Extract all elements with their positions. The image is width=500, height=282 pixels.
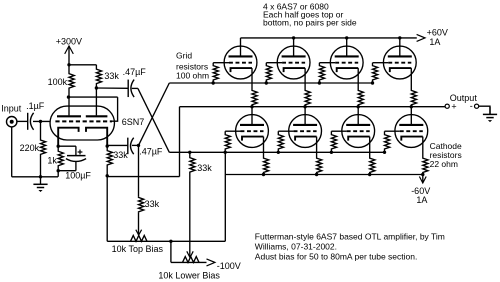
resistor 33k cathode2: [107, 146, 112, 169]
wire cathode lead V2a: [357, 68, 359, 88]
wire C1 to grid1: [33, 120, 51, 122]
wire plate2 to C2: [96, 87, 128, 89]
svg-text:100k: 100k: [48, 77, 68, 87]
svg-text:33k: 33k: [113, 150, 128, 160]
capacitor C2 .47uF top: [127, 80, 129, 98]
svg-text:10k Lower Bias: 10k Lower Bias: [158, 270, 220, 280]
svg-text:.1µF: .1µF: [26, 101, 45, 111]
wire cathode2 chain down: [106, 176, 108, 242]
wire cathode lead V1a: [251, 68, 253, 88]
node +60V rail junction 3: [398, 36, 401, 39]
tube U1 plate1 lead: [68, 97, 70, 115]
svg-text:Grid: Grid: [176, 51, 192, 61]
svg-text:-: -: [470, 101, 473, 111]
resistor 22ohm bottom cathode 4: [423, 156, 428, 175]
node bottom bus junction 4: [383, 151, 386, 154]
svg-text:100 ohm: 100 ohm: [176, 71, 209, 81]
svg-text:Futterman-style 6AS7 based OTL: Futterman-style 6AS7 based OTL amplifier…: [255, 231, 445, 241]
svg-text:22 ohm: 22 ohm: [430, 159, 458, 169]
node -60V rail junction 3: [368, 173, 371, 176]
resistor 33k top bias feed: [139, 197, 144, 213]
wire cathode network bottom: [58, 170, 76, 172]
resistor 22ohm top cathode 3: [358, 89, 363, 107]
tube V3a 6AS7 bottom half: [236, 115, 269, 148]
node top bus junction 1: [212, 81, 215, 84]
power +300V arrow: [65, 46, 74, 54]
node output rail junction 4: [410, 105, 413, 108]
node output rail junction 3: [357, 105, 360, 108]
resistor 100ohm grid bottom 1: [225, 131, 230, 152]
capacitor C3 100uF plus: [78, 151, 83, 153]
tube V1b plate lead: [293, 38, 295, 57]
resistor 33k plate2: [96, 65, 101, 88]
node cathode network bottom junction: [57, 169, 60, 172]
wire +300V arrow shaft: [68, 46, 70, 65]
wire grid lead V2a: [319, 62, 335, 64]
tube U1 plate2 lead: [95, 88, 97, 115]
svg-text:1A: 1A: [429, 37, 440, 47]
node -60V rail junction 1: [262, 173, 265, 176]
tube U1 cathode1: [58, 128, 78, 146]
resistor 22ohm bottom cathode 1: [264, 156, 269, 175]
tube V2b plate lead: [399, 38, 401, 57]
power -100V arrow: [207, 259, 215, 266]
svg-text:1k: 1k: [47, 155, 57, 165]
resistor 100ohm grid 4: [373, 63, 378, 83]
svg-text:Input: Input: [1, 104, 22, 114]
wire bottom bus to top bias rail: [224, 152, 226, 241]
svg-text:10k Top Bias: 10k Top Bias: [112, 244, 164, 254]
net top grid bus: [169, 82, 372, 84]
node bottom bus 33k junction: [188, 151, 191, 154]
resistor 22ohm top cathode 1: [252, 89, 257, 107]
wire cathode network top: [58, 145, 76, 147]
svg-text:.47µF: .47µF: [139, 147, 163, 157]
wire cathode lead V3b: [316, 137, 318, 156]
node top bus junction 4: [371, 81, 374, 84]
net lower bias rail: [171, 261, 207, 263]
svg-text:6SN7: 6SN7: [122, 117, 145, 127]
svg-text:33k: 33k: [197, 163, 212, 173]
net output rail: [180, 106, 446, 108]
wire output feedback horizontal: [107, 176, 179, 178]
net top bias rail: [107, 240, 225, 242]
wire grid lead V3b: [278, 130, 293, 132]
capacitor C1 .1uF: [27, 113, 29, 130]
node input grid junction: [39, 120, 42, 123]
resistor 220k: [41, 121, 46, 176]
node cathode2 junction: [106, 144, 109, 147]
tube U1 plate1 bar: [57, 115, 81, 117]
wire +300V rail to 33k: [69, 64, 96, 66]
wire C4 to junction stub: [132, 144, 139, 146]
svg-text:220k: 220k: [20, 143, 40, 153]
ground main: [40, 177, 42, 184]
tube V2b 6AS7 top half: [383, 46, 416, 79]
resistor 100ohm grid 2: [266, 63, 271, 83]
wire cathode lead V1b: [304, 68, 306, 88]
tube V4a plate lead: [357, 107, 359, 125]
svg-text:100µF: 100µF: [65, 171, 91, 181]
wire bias drop: [170, 241, 172, 262]
svg-text:-100V: -100V: [217, 261, 241, 271]
node bottom bus junction 1: [224, 151, 227, 154]
resistor 100k: [69, 65, 74, 97]
power -60V arrow: [419, 177, 426, 184]
wire grid lead V1b: [266, 62, 282, 64]
svg-text:Adust bias for 50 to 80mA per: Adust bias for 50 to 80mA per tube secti…: [255, 251, 418, 261]
tube V1a 6AS7 top half: [224, 46, 257, 79]
tube V4a 6AS7 bottom half: [342, 115, 375, 148]
resistor 100ohm grid bottom 2: [278, 131, 283, 152]
wire network to ground: [57, 171, 59, 177]
tube V4b plate lead: [410, 107, 412, 125]
wire cathode lead V4b: [422, 137, 424, 156]
pot R top-bias wiper arrow: [136, 230, 142, 235]
wire C4 node down: [138, 145, 140, 196]
tube V2a 6AS7 top half: [330, 46, 363, 79]
svg-text:+: +: [451, 102, 456, 112]
node top bus junction 3: [318, 81, 321, 84]
wire output feedback down: [179, 107, 181, 177]
resistor 22ohm bottom cathode 3: [370, 156, 375, 175]
resistor 22ohm top cathode 2: [305, 89, 310, 107]
resistor 100ohm grid bottom 3: [331, 131, 336, 152]
connector output - terminal: [475, 104, 479, 108]
svg-text:+60V: +60V: [427, 28, 448, 38]
node ground junction: [39, 175, 42, 178]
wire cathode lead V4a: [369, 137, 371, 156]
pot 10k Top Bias element: [131, 236, 148, 242]
node cathode1 junction: [57, 145, 60, 148]
connector input jack: [7, 117, 17, 127]
wire C3 bottom lead: [75, 162, 77, 171]
node +300V junction: [67, 63, 70, 66]
wire C2 to bottom bus stub: [132, 87, 138, 89]
tube V3a plate lead: [251, 107, 253, 125]
node bottom bus junction 3: [330, 151, 333, 154]
svg-text:.47µF: .47µF: [123, 67, 147, 77]
svg-text:1A: 1A: [416, 195, 427, 205]
wire 33k cathode2 to feedback node: [106, 170, 108, 176]
wire ground run: [12, 176, 58, 178]
node top bias junction: [169, 240, 172, 243]
tube U1 6SN7 envelope: [50, 106, 114, 140]
wire grid lead V4b: [385, 130, 400, 132]
svg-text:+300V: +300V: [56, 37, 82, 47]
wire grid lead V3a: [225, 130, 240, 132]
tube V2a plate lead: [346, 38, 348, 57]
svg-text:33k: 33k: [145, 199, 160, 209]
tube U1 cathode2: [86, 128, 107, 146]
svg-text:bottom, no pairs per side: bottom, no pairs per side: [263, 18, 357, 28]
net -60V rail: [225, 174, 422, 176]
node +60V rail junction 2: [345, 36, 348, 39]
wire plate1 to grid2 horizontal: [69, 96, 118, 98]
capacitor C3 100uF top plate: [67, 155, 86, 157]
node bottom bus junction 2: [277, 151, 280, 154]
tube V4b 6AS7 bottom half: [395, 115, 428, 148]
node +60V rail junction 1: [292, 36, 295, 39]
node output rail junction 1: [250, 105, 253, 108]
tube V1b 6AS7 top half: [277, 46, 310, 79]
wire grid lead V1a: [213, 62, 229, 64]
net bottom grid bus: [169, 151, 384, 153]
wire cathode lead V2b: [410, 68, 412, 88]
resistor 100ohm grid 1: [213, 63, 218, 83]
wire -60V arrow shaft: [422, 175, 424, 184]
wire C2 to bottom bus diagonal: [138, 88, 169, 152]
node -60V arrow junction: [421, 173, 424, 176]
capacitor C3 100uF bottom plate: [66, 159, 86, 162]
wire cathode lead V3a: [263, 137, 265, 156]
resistor 100ohm grid 3: [319, 63, 324, 83]
ground output: [489, 107, 491, 114]
power +60V arrow: [417, 34, 425, 41]
node feedback junction: [106, 174, 109, 177]
node -60V rail junction 2: [315, 173, 318, 176]
svg-text:33k: 33k: [104, 71, 119, 81]
resistor 22ohm bottom cathode 2: [317, 156, 322, 175]
node plate2 junction: [95, 86, 98, 89]
resistor 33k lower bias feed: [190, 152, 195, 177]
net +60V rail: [241, 37, 417, 39]
pot 10k Lower Bias element: [183, 257, 200, 263]
wire C4 to top bus diagonal: [139, 83, 170, 145]
node plate1 junction: [67, 95, 70, 98]
capacitor C4 .47uF bottom: [127, 138, 129, 155]
tube U1 plate2 bar: [86, 115, 108, 117]
wire grid lead V4a: [331, 130, 346, 132]
resistor 1k: [58, 146, 63, 171]
node output rail junction 2: [303, 105, 306, 108]
wire top bias wiper: [138, 213, 140, 235]
resistor 100ohm grid bottom 4: [385, 131, 390, 152]
tube V1a plate lead: [240, 38, 242, 57]
tube V3b 6AS7 bottom half: [289, 115, 322, 148]
wire lower bias wiper: [189, 178, 191, 258]
resistor 22ohm top cathode 4: [411, 89, 416, 107]
tube V3b plate lead: [304, 107, 306, 125]
wire jack to C1: [17, 120, 28, 122]
wire output ground: [479, 106, 490, 114]
svg-text:Williams, 07-31-2002.: Williams, 07-31-2002.: [255, 241, 337, 251]
wire cathode2 to C4: [107, 144, 127, 146]
tube U1 grid dashes: [55, 120, 112, 122]
wire C3 top lead: [75, 146, 77, 155]
connector output + terminal: [445, 104, 449, 108]
wire jack ground drop: [11, 127, 13, 177]
wire grid lead V2b: [373, 62, 389, 64]
pot R lower-bias wiper arrow: [187, 251, 193, 257]
wire plate1 to grid2 vertical: [112, 97, 118, 121]
node C4 output junction: [137, 144, 140, 147]
node top bus junction 2: [265, 81, 268, 84]
